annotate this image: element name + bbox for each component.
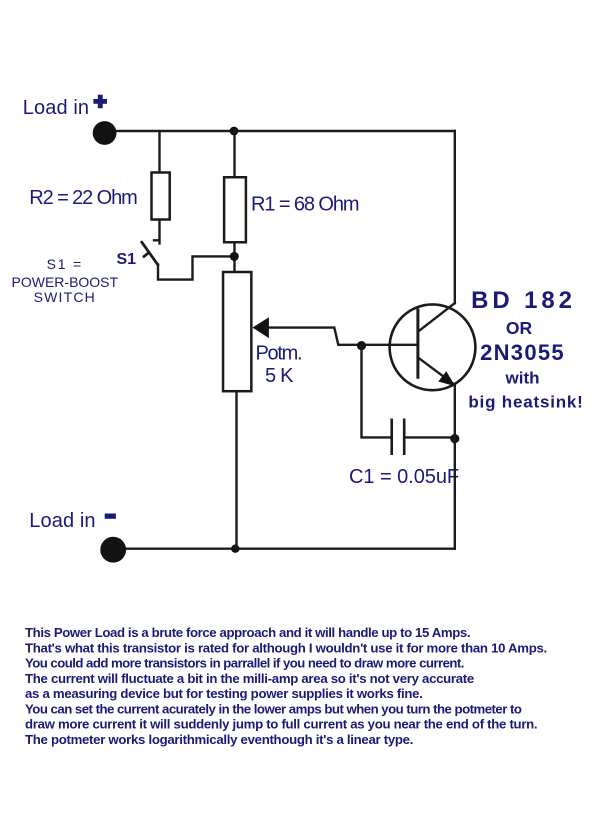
svg-text:C1 = 0.05uF: C1 = 0.05uF bbox=[349, 466, 459, 488]
wire: R1 top stem bbox=[233, 131, 235, 177]
svg-text:big heatsink!: big heatsink! bbox=[468, 393, 583, 412]
node: top rail / R1 junction bbox=[230, 127, 239, 136]
wire: top rail bbox=[117, 130, 455, 132]
svg-text:POWER-BOOST: POWER-BOOST bbox=[12, 274, 119, 290]
wire: switch to R1-bottom junction bbox=[158, 256, 232, 279]
svg-text:That's what this transistor is: That's what this transistor is rated for… bbox=[25, 640, 547, 655]
svg-text:with: with bbox=[505, 369, 540, 388]
resistor R2 bbox=[152, 173, 170, 220]
svg-text:Load in: Load in bbox=[29, 510, 95, 532]
svg-text:as a measuring device but for: as a measuring device but for testing po… bbox=[25, 686, 423, 701]
svg-text:You can set the current acurat: You can set the current acurately in the… bbox=[25, 701, 522, 716]
node: base / C1 junction bbox=[357, 341, 366, 350]
svg-text:R1 = 68 Ohm: R1 = 68 Ohm bbox=[251, 194, 359, 216]
wire: wiper to transistor base bbox=[266, 328, 418, 345]
wire: R1 bottom to pot top bbox=[233, 244, 235, 272]
svg-text:Load in: Load in bbox=[23, 97, 89, 119]
svg-text:S1: S1 bbox=[117, 251, 137, 268]
transistor Q1 base bar bbox=[416, 309, 419, 379]
node: R1 / switch / pot junction bbox=[230, 252, 239, 261]
wire: R2 top stem bbox=[158, 131, 160, 172]
svg-text:You could add more transistors: You could add more transistors in parral… bbox=[25, 656, 464, 671]
transistor Q1 collector line bbox=[420, 303, 455, 330]
svg-text:The potmeter works logarithmic: The potmeter works logarithmically event… bbox=[25, 732, 413, 747]
minus symbol bbox=[105, 514, 116, 519]
svg-text:2N3055: 2N3055 bbox=[480, 340, 565, 365]
wire: bottom rail bbox=[127, 548, 455, 550]
label: S1 = POWER-BOOST SWITCH bbox=[12, 256, 119, 305]
svg-text:S1 =: S1 = bbox=[47, 256, 83, 272]
capacitor C1 bbox=[392, 419, 405, 456]
wire: junction down to C1 left plate bbox=[362, 346, 391, 438]
resistor R1 bbox=[224, 177, 246, 242]
wire: emitter down to bottom rail bbox=[454, 385, 456, 549]
terminal: Load in - bbox=[100, 537, 126, 563]
potentiometer body bbox=[223, 272, 251, 391]
node: bottom rail / pot junction bbox=[231, 545, 239, 553]
svg-text:OR: OR bbox=[506, 318, 533, 338]
svg-text:draw more current it will sudd: draw more current it will suddenly jump … bbox=[25, 717, 537, 732]
node: emitter / C1 junction bbox=[450, 434, 459, 443]
wire: R2 bottom stem with fixed contact tick bbox=[154, 221, 160, 243]
wire: collector drop bbox=[454, 131, 456, 303]
potentiometer wiper arrow bbox=[253, 317, 269, 338]
svg-text:This Power Load is a brute for: This Power Load is a brute force approac… bbox=[25, 625, 470, 640]
plus symbol bbox=[93, 95, 107, 109]
switch S1 lever bbox=[142, 242, 158, 265]
svg-text:BD 182: BD 182 bbox=[471, 287, 576, 314]
terminal: Load in + bbox=[93, 121, 117, 145]
wire: C1 right plate to emitter rail bbox=[404, 436, 455, 438]
svg-text:R2 = 22 Ohm: R2 = 22 Ohm bbox=[29, 187, 137, 209]
svg-text:Potm.: Potm. bbox=[256, 342, 302, 364]
transistor Q1 emitter line with arrow bbox=[419, 358, 454, 384]
wire: pot bottom stem bbox=[235, 392, 237, 548]
svg-text:The current will fluctuate a b: The current will fluctuate a bit in the … bbox=[25, 671, 474, 686]
svg-text:SWITCH: SWITCH bbox=[34, 289, 96, 305]
svg-text:5 K: 5 K bbox=[265, 365, 294, 387]
transistor Q1 body circle bbox=[390, 304, 476, 390]
description paragraph bbox=[25, 625, 547, 747]
